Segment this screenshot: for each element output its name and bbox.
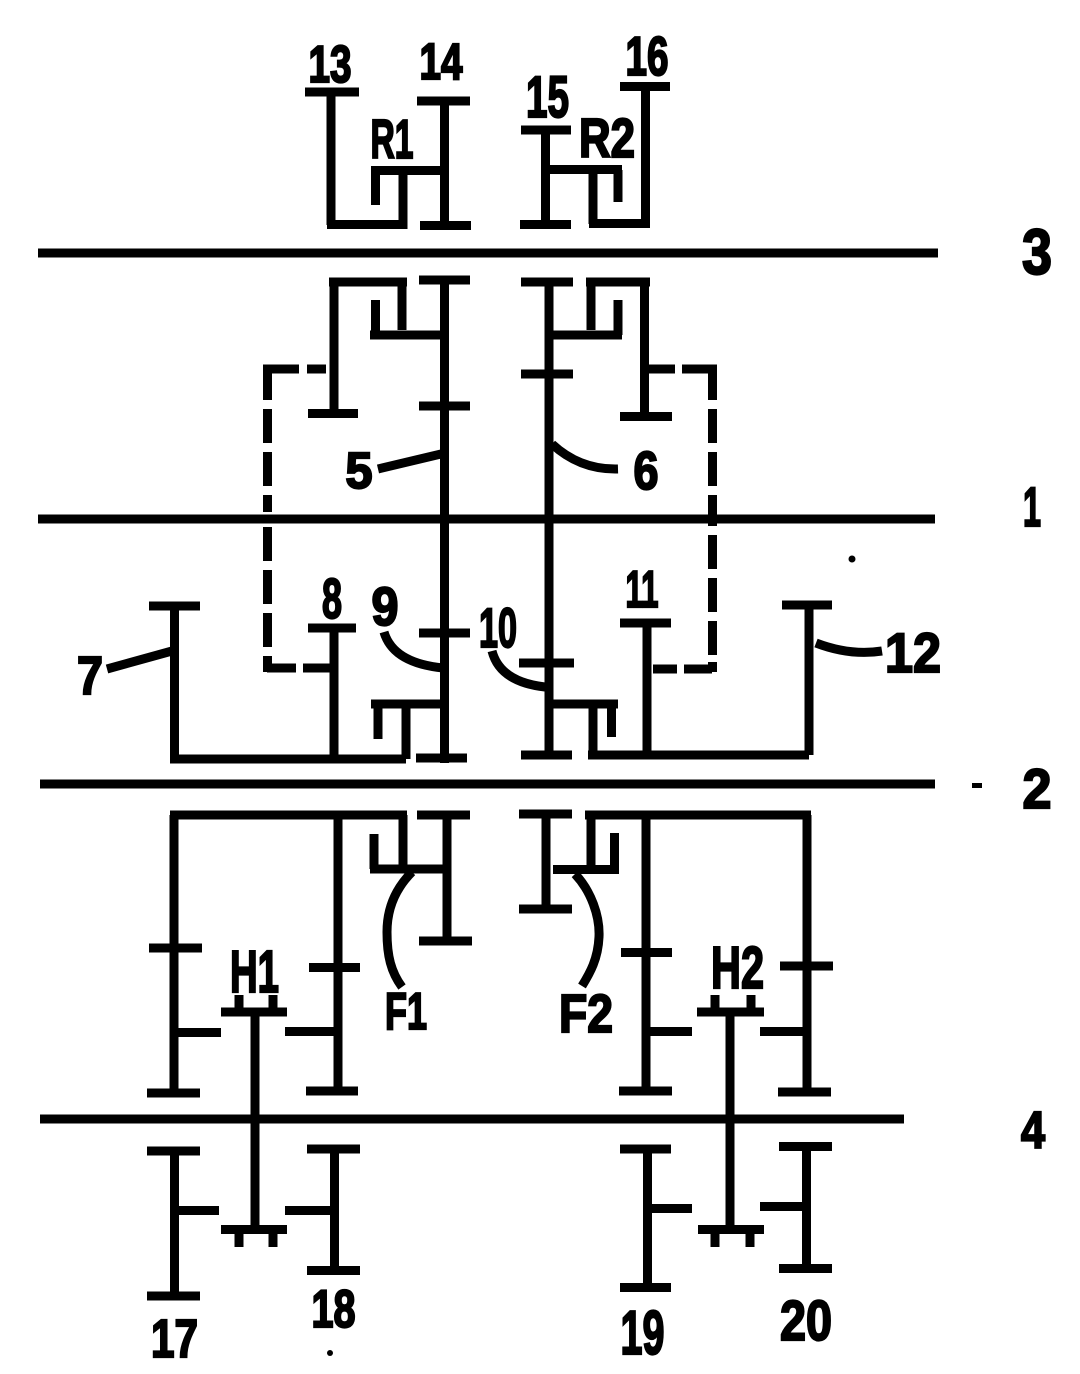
- clutch 10 vertical: [589, 704, 598, 755]
- clutch 9 vertical: [402, 704, 411, 759]
- clutch H2 upper: [697, 995, 764, 1012]
- svg-text:H2: H2: [711, 935, 764, 1001]
- gear 5 left stem: [308, 282, 358, 414]
- leader F2: [575, 874, 599, 986]
- clutch 9 horizontal: [371, 700, 449, 709]
- svg-text:16: 16: [626, 25, 669, 87]
- leader 5: [378, 454, 441, 469]
- svg-text:11: 11: [626, 561, 659, 619]
- speck dot below label 18: [327, 1350, 333, 1356]
- svg-text:15: 15: [526, 65, 569, 130]
- clutch R2 inner stub: [614, 170, 623, 202]
- wire top bar lower-right: [585, 811, 811, 820]
- gear 20: [760, 1146, 832, 1269]
- svg-text:6: 6: [634, 441, 659, 501]
- gear 15: [520, 130, 571, 229]
- clutch F1 vertical: [399, 815, 408, 869]
- dashed link left top edge: [263, 365, 326, 374]
- gear 12: [782, 605, 832, 755]
- shaft A top bar: [419, 276, 470, 285]
- shaft A bottom bar: [416, 754, 467, 763]
- svg-text:F2: F2: [559, 984, 613, 1044]
- clutch H2 lower: [698, 1229, 764, 1247]
- clutch F2 stub: [610, 833, 619, 869]
- svg-text:2: 2: [1023, 757, 1052, 820]
- shaft 3: [38, 249, 938, 258]
- clutch F1 stub: [370, 834, 379, 869]
- gear 7: [149, 606, 200, 759]
- leader 6: [552, 444, 618, 469]
- leader F1: [387, 872, 412, 987]
- gear 5 right vertical: [398, 282, 407, 330]
- svg-text:1: 1: [1023, 475, 1041, 538]
- shaft line B (center vertical 2): [545, 282, 554, 755]
- svg-text:F1: F1: [385, 983, 427, 1041]
- shaft 4: [40, 1115, 904, 1124]
- svg-text:7: 7: [77, 646, 103, 706]
- svg-text:19: 19: [621, 1299, 665, 1368]
- dashed link left vertical: [263, 369, 272, 672]
- svg-text:4: 4: [1021, 1102, 1045, 1160]
- clutch R1 inner stub: [371, 170, 380, 205]
- svg-text:9: 9: [372, 577, 399, 637]
- svg-text:18: 18: [312, 1280, 356, 1339]
- gear 6 top horizontal: [586, 278, 650, 287]
- gear 18: [285, 1149, 360, 1271]
- clutch H1 stem: [251, 1012, 260, 1229]
- svg-text:8: 8: [322, 567, 342, 631]
- gear 16: [620, 86, 670, 228]
- gear 22 mid vertical: [285, 815, 360, 1091]
- leader 7: [107, 651, 172, 669]
- gear 6 inner stub: [614, 300, 623, 335]
- svg-text:R2: R2: [579, 107, 635, 169]
- shaft D column: [519, 814, 572, 909]
- leader 12: [816, 643, 882, 652]
- dashed link right bottom edge: [653, 665, 712, 674]
- clutch H2 stem: [726, 1012, 735, 1229]
- svg-text:20: 20: [780, 1289, 832, 1353]
- svg-text:10: 10: [479, 596, 517, 659]
- svg-text:12: 12: [885, 621, 941, 684]
- shaft A tick upper: [419, 402, 470, 411]
- clutch R1 inner vertical: [399, 170, 408, 229]
- gear 6 left vertical: [587, 282, 596, 330]
- dashed link left bottom edge: [267, 664, 330, 673]
- gear 21 left vertical: [147, 815, 221, 1093]
- gear 5 top horizontal: [329, 278, 407, 287]
- svg-text:5: 5: [346, 442, 373, 499]
- clutch H1 upper: [221, 995, 287, 1012]
- gear 17: [147, 1151, 219, 1296]
- clutch F2 horizontal: [553, 865, 619, 874]
- svg-text:3: 3: [1022, 216, 1052, 288]
- gear 11: [620, 623, 671, 755]
- shaft B bottom bar: [521, 751, 572, 760]
- gear 8: [308, 628, 356, 759]
- clutch H1 lower: [221, 1229, 287, 1247]
- svg-text:17: 17: [151, 1309, 198, 1369]
- clutch R1 inner horizontal: [371, 166, 449, 175]
- gear 6 right stem: [620, 282, 672, 417]
- svg-text:13: 13: [309, 36, 352, 94]
- clutch F1 horizontal: [370, 865, 449, 874]
- shaft B top tick: [521, 278, 573, 287]
- shaft C column: [417, 815, 472, 941]
- shaft line A (center vertical 1): [440, 280, 449, 763]
- wire bottom bar left: [170, 755, 406, 764]
- clutch R2 bottom bar: [589, 219, 650, 228]
- leader 10: [492, 651, 545, 687]
- shaft 2: [40, 780, 935, 789]
- dashed link right top edge: [649, 365, 717, 374]
- svg-text:14: 14: [420, 33, 463, 90]
- gear 13: [305, 92, 359, 225]
- wire top bar lower-left: [170, 811, 407, 820]
- gear 24 right vertical: [760, 815, 833, 1092]
- shaft B tick lower: [519, 659, 574, 668]
- clutch R2 left vertical: [589, 170, 598, 224]
- clutch R2 inner horizontal: [545, 165, 622, 174]
- speck dot right of shaft B: [849, 556, 856, 563]
- dashed link right vertical: [708, 369, 717, 672]
- shaft B tick upper: [521, 370, 573, 379]
- leader 9: [384, 632, 443, 668]
- clutch 10 stub: [607, 704, 616, 737]
- svg-text:R1: R1: [371, 108, 414, 170]
- gear 5 inner stub: [371, 300, 380, 335]
- wire bottom bar right: [588, 751, 809, 760]
- gear 23 mid vertical: [619, 815, 692, 1091]
- clutch 9 stub: [374, 704, 383, 739]
- gear 14: [417, 101, 471, 229]
- clutch 10 horizontal: [549, 700, 618, 709]
- shaft A tick lower: [419, 629, 470, 638]
- gear 5 inner horizontal: [370, 331, 449, 340]
- shaft 1: [38, 515, 935, 524]
- clutch R1 bottom bar: [327, 220, 406, 229]
- gear 19: [620, 1149, 692, 1288]
- speck dash left of label 2: [972, 783, 982, 788]
- clutch F2 vertical: [587, 815, 596, 866]
- gear 6 inner horizontal: [549, 331, 622, 340]
